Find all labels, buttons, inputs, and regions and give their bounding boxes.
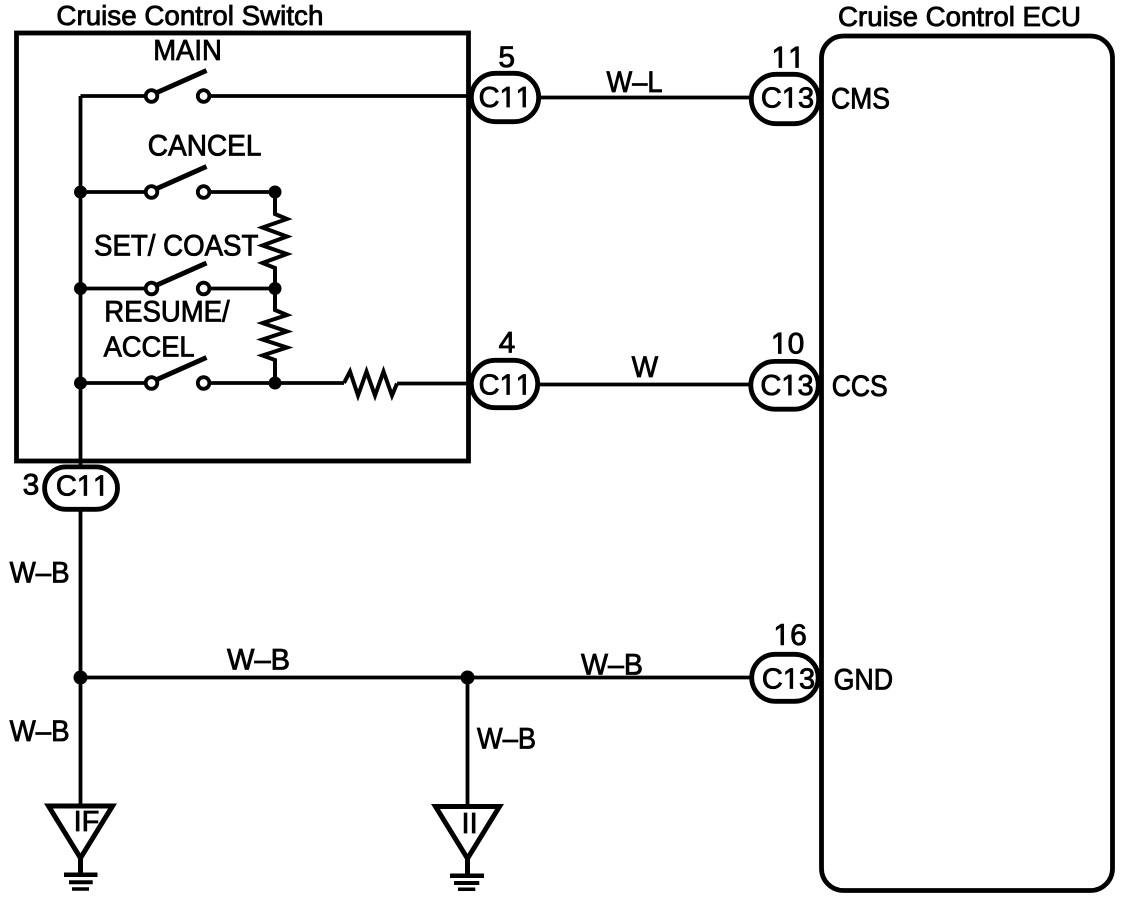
svg-text:CCS: CCS [832, 370, 888, 403]
svg-text:IF: IF [74, 806, 100, 838]
svg-text:5: 5 [498, 41, 515, 74]
svg-text:W–B: W–B [10, 715, 70, 748]
svg-text:C: C [761, 83, 782, 115]
svg-text:W: W [632, 351, 659, 384]
svg-text:W–B: W–B [10, 557, 70, 590]
svg-text:CMS: CMS [831, 82, 890, 115]
svg-text:W–B: W–B [227, 644, 290, 677]
svg-text:W–B: W–B [581, 649, 643, 682]
svg-text:C: C [56, 471, 77, 503]
svg-text:3: 3 [799, 664, 815, 696]
svg-text:CANCEL: CANCEL [148, 129, 262, 162]
svg-text:MAIN: MAIN [153, 35, 222, 67]
svg-text:SET/ COAST: SET/ COAST [94, 230, 258, 263]
svg-text:C: C [760, 370, 781, 402]
svg-text:6: 6 [790, 619, 807, 652]
svg-text:Cruise Control ECU: Cruise Control ECU [838, 1, 1081, 32]
svg-text:W–B: W–B [477, 723, 536, 756]
svg-text:4: 4 [499, 327, 516, 360]
svg-text:3: 3 [797, 370, 813, 402]
svg-text:GND: GND [834, 664, 894, 697]
svg-text:RESUME/: RESUME/ [104, 295, 230, 328]
svg-text:II: II [462, 808, 478, 840]
svg-text:3: 3 [23, 469, 40, 502]
svg-text:3: 3 [798, 83, 814, 115]
svg-text:ACCEL: ACCEL [104, 331, 195, 363]
svg-text:W–L: W–L [607, 66, 663, 99]
svg-text:0: 0 [788, 328, 805, 361]
svg-text:C: C [479, 82, 500, 114]
svg-text:Cruise Control Switch: Cruise Control Switch [56, 0, 323, 31]
svg-text:C: C [762, 664, 783, 696]
svg-text:C: C [479, 370, 500, 402]
